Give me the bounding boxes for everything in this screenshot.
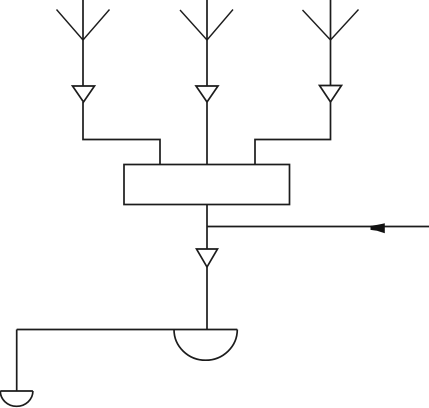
arrowhead on control input bbox=[371, 223, 385, 233]
wire combiner to amplifier A4 bbox=[206, 205, 208, 250]
antenna ANT2 bbox=[180, 0, 233, 86]
wire bbox=[206, 0, 208, 86]
amplifier A3 bbox=[320, 86, 342, 103]
wire A4 to detector bbox=[206, 267, 208, 330]
antenna ANT1 left arm bbox=[57, 10, 84, 41]
detector D2 flat top bbox=[0, 390, 33, 392]
antenna ANT3 bbox=[303, 0, 359, 86]
antenna ANT3 right arm bbox=[331, 10, 359, 41]
antenna ANT1 right arm bbox=[83, 10, 110, 41]
wire control input (from right) bbox=[207, 226, 429, 228]
antenna ANT2 right arm bbox=[207, 10, 233, 41]
wire ANT1 to combiner bbox=[83, 102, 160, 165]
detector D1 (half-disc) bbox=[174, 330, 237, 361]
antenna ANT1 bbox=[57, 0, 110, 86]
combiner box U1 bbox=[124, 165, 290, 205]
wire ANT2 to combiner bbox=[206, 102, 208, 165]
amplifier A1 bbox=[73, 86, 95, 102]
antenna ANT2 left arm bbox=[180, 10, 207, 40]
antenna ANT3 left arm bbox=[303, 10, 331, 40]
detector D2 (half-disc) bbox=[0, 391, 33, 406]
wire down-left branch bbox=[16, 330, 18, 392]
wire bbox=[82, 0, 84, 86]
wire detector to bottom-left bbox=[17, 329, 238, 331]
amplifier A4 bbox=[197, 249, 218, 267]
wire bbox=[330, 0, 332, 86]
amplifier A2 bbox=[196, 86, 218, 102]
wire ANT3 to combiner bbox=[255, 102, 331, 165]
